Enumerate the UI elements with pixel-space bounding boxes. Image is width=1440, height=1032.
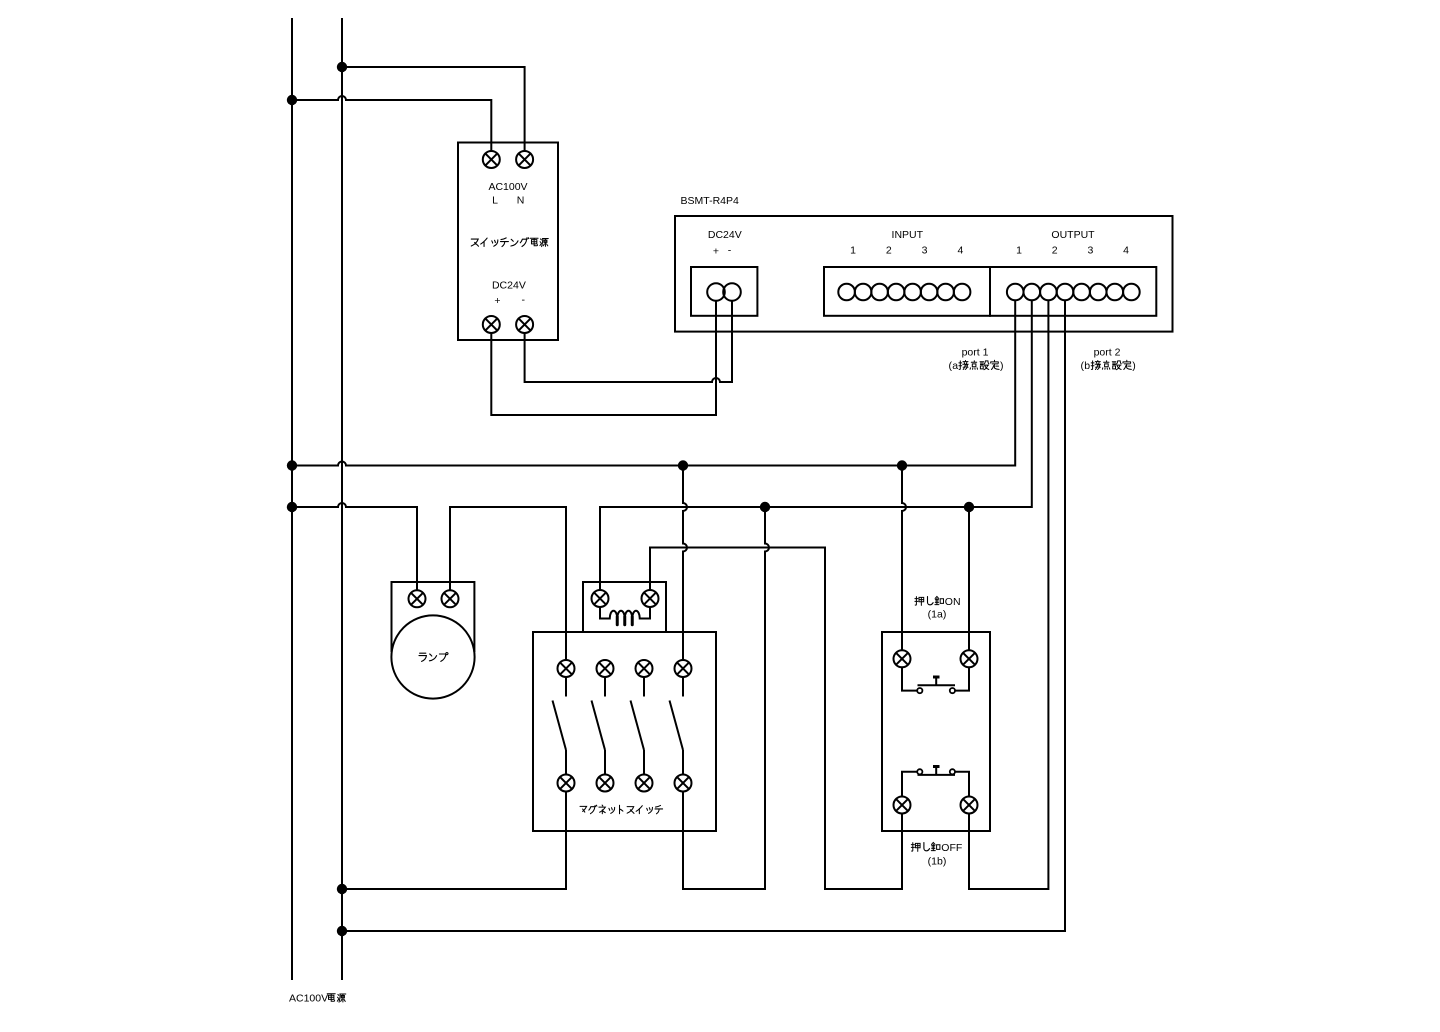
label ランプ <box>419 653 426 661</box>
svg-text:OUTPUT: OUTPUT <box>1051 229 1095 241</box>
svg-text:OFF: OFF <box>941 842 962 854</box>
terminal PSU AC N <box>516 151 533 168</box>
wire coil left terminal / line2 bus to OUTPUT pin 2 <box>600 300 1032 590</box>
node junction N top <box>337 62 347 72</box>
svg-text:a: a <box>952 360 958 372</box>
svg-text:1: 1 <box>850 245 856 257</box>
svg-text:b: b <box>1084 360 1090 372</box>
wire bus line1 (L feed) to OUTPUT pin 1, hops N rail <box>292 300 1015 465</box>
svg-text:(1a): (1a) <box>928 608 947 620</box>
terminal ON left <box>894 650 911 667</box>
lamp body rect <box>392 582 475 652</box>
BSMT main box <box>675 216 1173 332</box>
wire L rail to lamp left terminal, hops N rail <box>292 503 417 591</box>
BSMT DC24V terminal box <box>691 267 757 316</box>
node line1 to contact4 branch <box>678 460 688 470</box>
node N at coil return <box>337 926 347 936</box>
wire L rail to PSU L terminal (hops N rail) <box>292 96 491 152</box>
terminal ON right <box>961 650 978 667</box>
coil box <box>583 582 666 632</box>
node L at line2 <box>287 502 297 512</box>
svg-text:port 2: port 2 <box>1094 347 1121 359</box>
relay unit BSMT-R4P4 <box>675 195 1173 332</box>
svg-text:DC24V: DC24V <box>708 229 742 241</box>
wire OUTPUT pin 4 to N rail <box>342 300 1065 931</box>
pins OUTPUT 1-8 <box>1007 284 1140 301</box>
magnet switch マグネットスイッチ <box>533 582 716 831</box>
BSMT OUTPUT terminal box <box>990 267 1156 316</box>
push button OFF (1b NC) symbol <box>902 767 969 798</box>
push button ON (1a NO) symbol <box>902 667 969 693</box>
contact pole 1 <box>553 660 575 792</box>
svg-text:): ) <box>1132 360 1136 372</box>
svg-text:+: + <box>494 295 500 307</box>
svg-text:INPUT: INPUT <box>892 229 924 241</box>
svg-text:4: 4 <box>957 245 963 257</box>
wire PSU + to BSMT + <box>491 301 716 415</box>
label 押し釦ON <box>915 596 961 608</box>
svg-text:4: 4 <box>1123 245 1129 257</box>
label スイッチング電源 <box>471 238 548 247</box>
pin DC24V + <box>707 283 725 301</box>
wire magnet contact1 bottom to N rail <box>342 791 566 889</box>
svg-text:1: 1 <box>1016 245 1022 257</box>
node ON button right branch on line2 <box>964 502 974 512</box>
svg-text:-: - <box>728 245 732 257</box>
magnet switch box <box>533 632 716 831</box>
svg-text:3: 3 <box>1087 245 1093 257</box>
power supply スイッチング電源 box <box>458 143 558 341</box>
wire coil right terminal via line3 down to OFF button left terminal <box>650 548 902 890</box>
node L at line1 <box>287 460 297 470</box>
wire magnet contact4 bottom to self-hold node (hops line3) <box>683 507 769 889</box>
lamp ランプ <box>391 582 474 699</box>
terminal OFF right <box>961 797 978 814</box>
svg-text:port 1: port 1 <box>962 347 989 359</box>
wire L power rail <box>291 18 293 980</box>
svg-text:2: 2 <box>1052 245 1058 257</box>
contact pole 4 <box>670 660 692 792</box>
svg-text:DC24V: DC24V <box>492 279 526 291</box>
svg-text:(1b): (1b) <box>928 855 947 867</box>
node N at lamp return <box>337 884 347 894</box>
svg-text:BSMT-R4P4: BSMT-R4P4 <box>681 195 740 207</box>
BSMT INPUT terminal box <box>824 267 990 316</box>
svg-text:+: + <box>713 246 719 258</box>
svg-text:3: 3 <box>922 245 928 257</box>
coil inductor winding <box>600 607 650 619</box>
lamp globe circle <box>391 615 474 698</box>
wire line2 to ON button right terminal <box>968 507 970 651</box>
svg-text:-: - <box>522 294 526 306</box>
label AC100V電源 <box>289 993 346 1005</box>
svg-text:AC100V: AC100V <box>289 993 328 1005</box>
contact pole 3 <box>631 660 653 792</box>
node self-hold branch on line2 <box>760 502 770 512</box>
svg-text:N: N <box>517 195 525 207</box>
terminal PSU DC + <box>483 316 500 333</box>
wire N rail to PSU N terminal <box>342 67 525 152</box>
wire OFF button right terminal to OUTPUT pin 3 <box>969 300 1048 889</box>
label port 1 (a接点設定) <box>949 347 1004 373</box>
label 押し釦OFF <box>911 842 962 854</box>
label マグネットスイッチ <box>580 805 663 814</box>
svg-text:ON: ON <box>945 596 961 608</box>
terminal lamp left <box>409 590 426 607</box>
label port 2 (b接点設定) <box>1081 347 1136 373</box>
terminal OFF left <box>894 797 911 814</box>
wire PSU - to BSMT - (hops + wire) <box>525 301 732 382</box>
wire lamp right terminal to magnet contact1 top <box>450 507 566 661</box>
wire N power rail <box>341 18 343 980</box>
svg-text:2: 2 <box>886 245 892 257</box>
push button unit <box>882 596 990 868</box>
node junction L top <box>287 95 297 105</box>
terminal coil left <box>592 590 609 607</box>
terminal PSU DC - <box>516 316 533 333</box>
terminal lamp right <box>442 590 459 607</box>
pin DC24V - <box>723 283 741 301</box>
svg-text:L: L <box>492 195 498 207</box>
terminal coil right <box>642 590 659 607</box>
svg-text:AC100V: AC100V <box>488 181 527 193</box>
wire line1 to ON button left terminal (hops line2) <box>902 466 906 651</box>
svg-text:): ) <box>1000 360 1004 372</box>
wire line1 to magnet contact4 top (hops line2, line3) <box>683 466 687 661</box>
terminal PSU AC L <box>483 151 500 168</box>
node line1 to ON button branch <box>897 460 907 470</box>
contact pole 2 <box>592 660 614 792</box>
push button box <box>882 632 990 831</box>
pins INPUT 1-8 <box>838 284 970 301</box>
